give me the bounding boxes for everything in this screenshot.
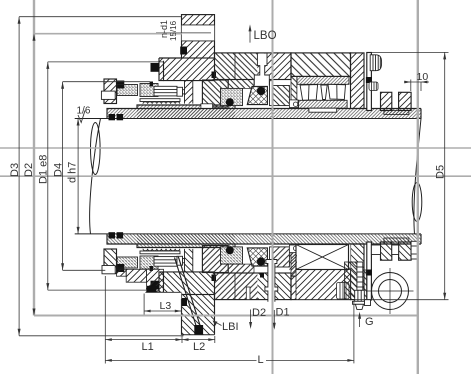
D3 arrows xyxy=(18,17,21,24)
LBI port slot (white) xyxy=(265,260,278,302)
LBO port slot (white) xyxy=(254,53,269,86)
seat clamp block 2 xyxy=(399,92,412,110)
svg-text:L2: L2 xyxy=(193,341,205,353)
svg-text:d h7: d h7 xyxy=(67,162,79,183)
dimension L1/L2 lines xyxy=(104,276,106,364)
shaft xyxy=(75,119,422,234)
packing box (X square) xyxy=(296,245,349,270)
G arrow line xyxy=(359,314,361,327)
svg-text:15/16: 15/16 xyxy=(169,20,178,41)
flange bottom trim (white) xyxy=(181,335,216,340)
bearing base plate xyxy=(309,108,337,112)
dimension L3 lines xyxy=(144,310,181,312)
collar plate xyxy=(367,53,372,111)
gray guide horizontal (axis) xyxy=(0,175,471,177)
retainer plate xyxy=(140,99,180,102)
flange bolt hole (white) xyxy=(182,25,215,41)
drive rod xyxy=(270,81,274,106)
gray guide horizontal (upper) xyxy=(0,147,471,149)
mirrorable assembly group (top half); bottom is a mirrored use xyxy=(104,15,421,121)
gray guide vertical (center) xyxy=(272,0,274,374)
LBI arrowhead xyxy=(213,321,218,326)
svg-text:L1: L1 xyxy=(142,341,154,353)
svg-text:LBI: LBI xyxy=(222,321,239,333)
gland notch (white, L3 pocket) xyxy=(145,292,181,316)
left gland stub (top) xyxy=(101,91,115,99)
rotating seal ring xyxy=(202,80,228,107)
tiny o-ring (black) xyxy=(150,82,153,87)
shaft left break line xyxy=(90,119,101,234)
dimension D4 lines xyxy=(62,82,64,271)
dimension D5 lines xyxy=(444,52,446,299)
o-ring (flange right chamfer, black) xyxy=(212,72,217,79)
housing top band A xyxy=(215,53,292,89)
stud boss hatch left xyxy=(345,262,358,300)
svg-text:D1 e8: D1 e8 xyxy=(38,155,50,184)
small screw (knurled) xyxy=(369,82,378,91)
L arrows xyxy=(105,359,112,362)
anti-rotation pin xyxy=(175,257,204,335)
D2 bottom arrowhead xyxy=(249,322,252,329)
gland bolt (bottom right) xyxy=(371,241,417,259)
bottom gland stepped web xyxy=(117,269,164,292)
seal spring pack (stipple) xyxy=(221,88,243,105)
D5 arrows xyxy=(443,52,446,59)
gland step block xyxy=(159,58,215,81)
hatch patch left of packing box xyxy=(289,253,297,274)
gray guide vertical (right face) xyxy=(417,0,419,374)
D1e8 arrows xyxy=(46,62,49,69)
hatch below packing box xyxy=(296,270,351,300)
sleeve o-ring pair (black) xyxy=(109,114,116,120)
gray guide vertical (D2 dim) xyxy=(33,0,35,316)
drain hole (white column) xyxy=(246,287,250,300)
D2 bottom arrow line xyxy=(250,310,252,328)
L1/L2 arrows xyxy=(105,338,112,341)
dimension D3 lines xyxy=(18,17,20,336)
wave spring xyxy=(143,102,180,104)
dimension L lines xyxy=(105,359,354,361)
bearing cavity top strip xyxy=(297,76,349,84)
gray guide horizontal (D2 bottom extension) xyxy=(34,315,418,317)
bearing lobes xyxy=(300,84,345,100)
svg-text:L3: L3 xyxy=(160,300,172,312)
label L xyxy=(257,355,267,365)
G arrowhead xyxy=(358,312,361,319)
seal face ring (crosshatch) xyxy=(247,87,267,105)
LBI leader xyxy=(213,321,222,326)
gland flange column xyxy=(182,15,215,58)
stud boss hatch right xyxy=(362,270,367,300)
bearing cavity bottom strip xyxy=(299,100,348,108)
dh7 arrows xyxy=(77,119,80,126)
10 arrows xyxy=(404,81,411,84)
o-ring (left gland, black) xyxy=(116,81,124,89)
o-ring (collar, black) xyxy=(366,77,372,83)
D4 arrows xyxy=(61,82,64,89)
shaft top edge xyxy=(75,118,421,120)
svg-text:G: G xyxy=(365,316,374,328)
small o-ring (clamp area, black) xyxy=(260,273,264,278)
housing cavity left wall xyxy=(291,76,297,108)
drive bolt xyxy=(154,86,185,96)
svg-text:D2: D2 xyxy=(23,163,35,177)
o-ring (notch, black) xyxy=(147,286,157,293)
gland eye ring xyxy=(367,268,414,314)
sleeve step under ring (white) xyxy=(201,104,213,109)
set screw knob (knurled) xyxy=(370,55,381,71)
dimension D1e8 lines xyxy=(47,62,49,290)
svg-text:L: L xyxy=(258,354,264,366)
housing right wall xyxy=(351,53,365,109)
svg-text:D2: D2 xyxy=(252,307,266,319)
housing top band B xyxy=(291,53,351,77)
svg-text:10: 10 xyxy=(417,71,429,83)
left gland block xyxy=(104,79,117,104)
D2 arrows xyxy=(33,34,36,41)
o-ring (step, black) xyxy=(151,63,160,72)
shaft right break ellipse xyxy=(412,183,422,222)
gland lower web xyxy=(185,81,193,104)
collar plate foot xyxy=(365,300,371,306)
dimension dh7 line xyxy=(77,119,79,234)
svg-text:D5: D5 xyxy=(435,165,447,179)
n-d1 hole leader xyxy=(156,32,211,34)
o-ring (flange left, black) xyxy=(180,47,187,55)
D1 bottom arrow line xyxy=(273,310,275,328)
LBO arrowhead xyxy=(249,24,252,31)
seat clamp block 1 xyxy=(381,92,392,110)
o-ring dot (black, above seal ring) xyxy=(257,87,265,95)
shaft bottom edge xyxy=(75,233,421,235)
LBO arrow line xyxy=(249,29,251,43)
svg-text:n-d1: n-d1 xyxy=(159,20,169,38)
knurled screw (bottom) xyxy=(337,283,350,300)
clamp holder xyxy=(273,86,289,106)
svg-text:D4: D4 xyxy=(53,163,65,177)
spring pack (stipple) xyxy=(117,84,158,97)
sleeve hatched band xyxy=(107,105,421,119)
seat gasket strip xyxy=(384,111,409,115)
svg-text:LBO: LBO xyxy=(254,30,277,42)
svg-text:D1: D1 xyxy=(276,307,290,319)
packing box area white base xyxy=(296,245,351,300)
gray guide horizontal (D2 top extension) xyxy=(34,33,182,35)
bottom left gland stub xyxy=(102,266,115,274)
dimension 10 lines xyxy=(404,81,429,83)
shaft right break line xyxy=(414,119,421,234)
svg-text:D3: D3 xyxy=(9,163,21,177)
set screw end xyxy=(289,100,298,108)
G-port stud xyxy=(353,262,366,309)
L3 arrows xyxy=(144,310,151,313)
o-ring dot (black, on stipple) xyxy=(226,98,234,106)
D1 bottom arrowhead xyxy=(273,323,276,330)
shaft left break ellipse xyxy=(91,123,101,175)
